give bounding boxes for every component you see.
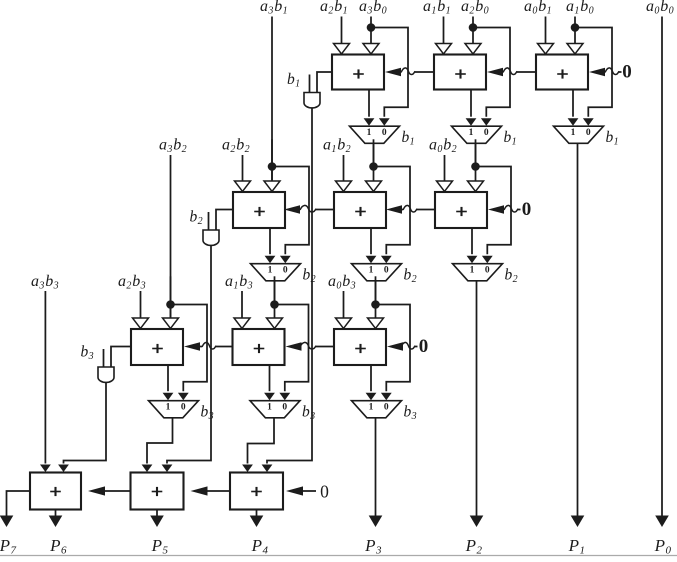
svg-text:1: 1 <box>367 128 372 138</box>
input label a0b1 <box>524 0 552 16</box>
svg-text:0: 0 <box>484 128 489 138</box>
carry arrow into U12 from U13 <box>487 68 536 76</box>
wire b1 select stub into AND gate G1 <box>309 75 311 93</box>
final adder U7 <box>30 473 81 510</box>
input triangle left of adder U12 <box>436 44 452 54</box>
AND gate G2 <box>203 230 219 245</box>
input label a0b0 <box>646 0 674 16</box>
input triangle left of adder U11 <box>334 44 350 54</box>
wire AND G2 output down to final adder U8 <box>162 245 211 472</box>
input label a1b3 <box>225 273 253 292</box>
svg-text:1: 1 <box>369 266 374 276</box>
mux select label b2 of M23 <box>505 267 519 286</box>
wire b2 select stub into AND gate G2 <box>208 212 210 230</box>
input label a3b3 <box>31 273 59 292</box>
output label P3 <box>364 536 382 557</box>
wire carry-out of U21 into AND gate G2 <box>216 210 233 231</box>
constant 0 (final row) <box>320 481 329 501</box>
input triangle left of adder U33 <box>336 318 352 328</box>
wire left input of cell 11 <box>341 17 343 44</box>
mux select label b1 of M13 <box>606 129 620 148</box>
carry arrow into U7 from U8 <box>88 486 131 495</box>
constant 0 (row 2) <box>522 199 532 220</box>
wire right input of cell 11 <box>370 17 372 44</box>
wire right input of cell 21 <box>271 139 273 181</box>
sum wire cell 11 <box>364 90 375 126</box>
junction dot cell 32 <box>270 300 279 309</box>
sum wire cell 12 <box>466 90 477 126</box>
wire a3b1 column down to row-2 cell <box>271 17 273 182</box>
adder U31 <box>131 329 183 365</box>
bypass wire cell 22 <box>374 167 411 264</box>
carry arrow into U11 from U12 <box>385 68 434 76</box>
input triangle left of adder U23 <box>437 181 453 191</box>
wire left input of cell 31 <box>140 291 142 318</box>
mux M23 <box>453 264 503 281</box>
AND gate G3 <box>98 367 114 382</box>
input label a1b2 <box>323 136 351 155</box>
svg-text:1: 1 <box>469 128 474 138</box>
wire P5 from U8 sum <box>150 510 164 528</box>
label b1 (AND gate input) <box>287 71 301 90</box>
final adder U8 <box>131 473 184 510</box>
input label a2b3 <box>118 273 146 292</box>
bypass wire cell 13 <box>575 28 612 126</box>
wire left input of cell 22 <box>343 155 345 181</box>
junction dot cell 11 <box>367 23 376 32</box>
carry-in 0 wire into U9 <box>286 486 316 495</box>
wire left input of cell 32 <box>241 291 243 318</box>
svg-text:1: 1 <box>470 266 475 276</box>
wire M11 output to cell 22 <box>373 143 375 166</box>
bypass wire cell 21 <box>272 167 309 264</box>
input triangle left of adder U21 <box>235 181 251 191</box>
sum wire cell 22 <box>366 228 377 263</box>
final adder U9 <box>230 473 283 510</box>
svg-text:1: 1 <box>166 403 171 413</box>
output label P0 <box>654 536 672 557</box>
input label a3b1 <box>260 0 288 16</box>
output label P6 <box>49 536 67 557</box>
svg-text:0: 0 <box>522 199 532 220</box>
input label a1b0 <box>566 0 594 16</box>
junction dot cell 33 <box>371 300 380 309</box>
carry arrow into U32 from U33 <box>286 342 335 350</box>
carry arrow into U31 from U32 <box>184 342 233 350</box>
adder U32 <box>233 329 285 365</box>
bypass wire cell 32 <box>275 305 309 401</box>
input label a0b3 <box>328 273 356 292</box>
wire right input of cell 22 <box>373 139 375 181</box>
wire left input of cell 12 <box>443 17 445 44</box>
wire right input of cell 12 <box>472 17 474 44</box>
junction dot cell 12 <box>469 23 478 32</box>
input label a2b0 <box>461 0 489 16</box>
svg-text:0: 0 <box>384 266 389 276</box>
wire M12 output to cell 23 <box>475 143 477 166</box>
wire M33 output down to P3 <box>369 418 383 527</box>
mux M12 <box>452 126 502 143</box>
mux select label b1 of M11 <box>402 129 416 148</box>
faint page rule at bottom <box>0 555 677 557</box>
wire right input of cell 23 <box>475 139 477 181</box>
svg-text:0: 0 <box>485 266 490 276</box>
wire M31 output to final adder U8 <box>142 418 173 472</box>
wire a3b3 column down to final adder U7 <box>40 291 51 472</box>
svg-text:0: 0 <box>419 336 429 357</box>
carry-in 0 wire into U23 <box>488 205 521 213</box>
wire P7 from U7 carry-out <box>0 491 30 527</box>
constant 0 (row 3) <box>419 336 429 357</box>
wire carry-out of U11 into AND gate G1 <box>317 72 332 93</box>
mux M22 <box>352 264 402 281</box>
adder U12 <box>434 55 486 90</box>
wire P6 from U7 sum <box>49 510 63 528</box>
carry-in 0 wire into U33 <box>387 342 418 350</box>
adder U21 <box>233 192 285 228</box>
input label a3b0 <box>359 0 387 16</box>
wire M21 output to cell 32 <box>274 281 276 304</box>
carry-in 0 wire into U13 <box>589 68 622 76</box>
output label P5 <box>151 536 169 557</box>
sum wire cell 33 <box>366 365 377 400</box>
input label a2b2 <box>222 136 250 155</box>
wire right input of cell 33 <box>375 276 377 318</box>
mux select label b1 of M12 <box>504 129 518 148</box>
input triangle right of adder U21 <box>264 181 280 191</box>
output label P1 <box>568 536 586 557</box>
mux select label b3 of M31 <box>201 404 215 423</box>
sum wire cell 21 <box>265 228 276 263</box>
output label P4 <box>251 536 269 557</box>
AND gate G1 <box>304 93 320 108</box>
wire M22 output to cell 33 <box>375 281 377 304</box>
wire AND G1 output down to final adder U9 <box>262 108 312 472</box>
wire M13 output down to P1 <box>571 143 585 527</box>
junction dot cell 21 <box>268 162 277 171</box>
mux M32 <box>250 401 300 418</box>
sum wire cell 32 <box>264 365 275 400</box>
input triangle right of adder U12 <box>465 44 481 54</box>
carry arrow into U22 from U23 <box>386 205 435 213</box>
mux M33 <box>352 401 402 418</box>
adder U11 <box>332 55 384 90</box>
wire left input of cell 21 <box>242 155 244 181</box>
wire carry-out of U31 into AND gate G3 <box>111 347 131 368</box>
output label P2 <box>465 536 483 557</box>
wire right input of cell 31 <box>170 276 172 318</box>
mux select label b3 of M33 <box>404 404 418 423</box>
junction dot cell 23 <box>471 162 480 171</box>
input label a2b1 <box>320 0 348 16</box>
bypass wire cell 12 <box>473 28 510 126</box>
input triangle right of adder U22 <box>366 181 382 191</box>
svg-text:0: 0 <box>384 403 389 413</box>
mux M31 <box>149 401 199 418</box>
mux select label b3 of M32 <box>302 404 316 423</box>
wire P4 from U9 sum <box>250 510 264 528</box>
wire a0b0 column down to P0 <box>655 17 669 528</box>
mux select label b2 of M22 <box>404 267 418 286</box>
sum wire cell 23 <box>467 228 478 263</box>
mux M13 <box>554 126 604 143</box>
label b3 (AND gate input) <box>81 344 95 363</box>
input triangle left of adder U32 <box>234 318 250 328</box>
svg-text:0: 0 <box>320 481 329 501</box>
input triangle right of adder U32 <box>267 318 283 328</box>
wire left input of cell 23 <box>444 155 446 181</box>
constant 0 (row 1) <box>622 62 632 83</box>
input triangle right of adder U33 <box>368 318 384 328</box>
svg-text:1: 1 <box>369 403 374 413</box>
wire right input of cell 32 <box>274 276 276 318</box>
svg-text:1: 1 <box>268 266 273 276</box>
mux M21 <box>251 264 301 281</box>
input triangle left of adder U22 <box>336 181 352 191</box>
wire AND G3 output down to final adder U7 <box>58 382 106 472</box>
wire M32 output to final adder U9 <box>242 418 274 472</box>
adder U13 <box>536 55 588 90</box>
svg-text:0: 0 <box>586 128 591 138</box>
carry arrow into U8 from U9 <box>191 486 231 495</box>
input label a1b1 <box>423 0 451 16</box>
svg-text:0: 0 <box>181 403 186 413</box>
adder U33 <box>334 329 386 365</box>
svg-text:0: 0 <box>382 128 387 138</box>
input label a0b2 <box>429 136 457 155</box>
svg-text:0: 0 <box>283 266 288 276</box>
input triangle left of adder U13 <box>538 44 554 54</box>
wire right input of cell 13 <box>574 17 576 44</box>
input triangle right of adder U11 <box>363 44 379 54</box>
wire b3 select stub into AND gate G3 <box>103 349 105 367</box>
sum wire cell 31 <box>163 365 174 400</box>
adder U22 <box>334 192 386 228</box>
svg-text:0: 0 <box>282 403 287 413</box>
junction dot cell 31 <box>166 300 175 309</box>
bypass wire cell 31 <box>171 305 208 401</box>
adder U23 <box>435 192 487 228</box>
mux M11 <box>350 126 400 143</box>
input triangle left of adder U31 <box>133 318 149 328</box>
sum wire cell 13 <box>568 90 579 126</box>
mux select label b2 of M21 <box>303 267 317 286</box>
wire M23 output down to P2 <box>470 281 484 527</box>
bypass wire cell 23 <box>476 167 512 264</box>
wire a3b2 column down to row-3 cell <box>170 155 172 319</box>
svg-text:0: 0 <box>622 62 632 83</box>
svg-text:1: 1 <box>571 128 576 138</box>
bypass wire cell 33 <box>376 305 411 401</box>
svg-text:1: 1 <box>267 403 272 413</box>
junction dot cell 22 <box>369 162 378 171</box>
input triangle right of adder U31 <box>163 318 179 328</box>
input triangle right of adder U23 <box>468 181 484 191</box>
carry arrow into U21 from U22 <box>284 205 334 213</box>
bypass wire cell 11 <box>371 28 408 126</box>
wire left input of cell 33 <box>343 291 345 318</box>
junction dot cell 13 <box>571 23 580 32</box>
label b2 (AND gate input) <box>190 209 204 228</box>
wire left input of cell 13 <box>545 17 547 44</box>
output label P7 <box>0 536 16 557</box>
input label a3b2 <box>159 136 187 155</box>
input triangle right of adder U13 <box>567 44 583 54</box>
